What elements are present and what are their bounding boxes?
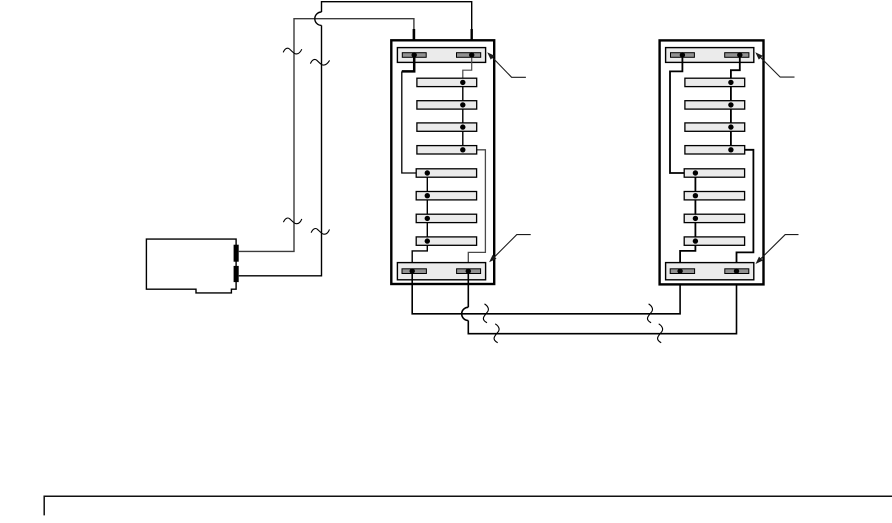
rack A node: slot 2 [460, 102, 465, 107]
wire B drop into rack A (thick) [471, 29, 473, 55]
rack A top-left port connector [402, 53, 426, 58]
cable C break squiggle (right) [647, 304, 652, 323]
rack B top patch bar [666, 48, 754, 63]
rack A slot 7 [416, 214, 476, 222]
rack A bottom-right port connector [457, 269, 481, 274]
wire B: device J2 to rack A right top connector [239, 2, 472, 276]
rack A internal wire: slots 5-8 chain [426, 173, 428, 241]
rack B slot 4 [685, 146, 745, 154]
rack B slot 8 [684, 237, 744, 245]
cable D: rack A bottom-right to rack B bottom-right [468, 271, 736, 334]
rack B internal wire: slots 1-4 chain [730, 82, 732, 149]
rack B slot 3 [685, 123, 745, 131]
rack A top-right port connector [457, 53, 481, 58]
rack A internal wire: slots 1-4 chain [462, 82, 464, 149]
rack A slot 1 [417, 78, 477, 86]
rack A slot 3 [417, 123, 477, 131]
rack B bottom-left port connector [670, 269, 694, 274]
rack B top-right port connector [725, 53, 749, 58]
rack B internal wire: slot 4 to bottom-right port [731, 150, 754, 271]
rack A bottom patch bar [397, 263, 485, 280]
leader line: rack B bottom bar callout [759, 235, 799, 261]
rack B bottom-right port connector [725, 269, 749, 274]
rack A node: slot 4 [460, 147, 465, 152]
leader arrowhead: rack A bottom bar [489, 255, 496, 262]
wire B break squiggle (lower) [311, 229, 329, 235]
rack B node: slot 7 [693, 216, 698, 221]
leader line: rack B top bar callout [759, 56, 795, 78]
wire A: device J1 to rack A left top connector [239, 19, 414, 252]
rack B internal wire: slot 8 to bottom-left port [680, 241, 695, 271]
wire A drop into rack A (thick) [413, 29, 416, 55]
leader arrowhead: rack A top bar [487, 52, 494, 59]
rack A slot 5 [416, 169, 476, 177]
rack A node: bottom-right port [466, 268, 471, 273]
rack B node: slot 8 [693, 238, 698, 243]
cable D break squiggle (right) [658, 324, 663, 343]
rack B slot 6 [684, 192, 744, 200]
rack B node: bottom-left port [677, 268, 682, 273]
rack A internal wire: top-right port jog (gray) [463, 55, 472, 82]
rack B node: slot 4 [728, 147, 733, 152]
rack B node: slot 6 [693, 193, 698, 198]
rack A slot 4 [417, 146, 477, 154]
cable C break squiggle (left) [483, 304, 488, 323]
wire B hop over wire A [315, 12, 322, 25]
rack A node: slot 7 [425, 216, 430, 221]
leader line: rack A top bar callout [491, 56, 526, 78]
rack B node: slot 5 [693, 170, 698, 175]
rack A node: slot 6 [425, 193, 430, 198]
cable D hop over cable C [462, 307, 469, 320]
rack A slot 2 [417, 101, 477, 109]
rack A outer frame [391, 40, 494, 284]
caption box top-left corner [44, 496, 892, 515]
device connector J2 (lower) [234, 266, 239, 282]
rack A internal wire: slot 4 to bottom-right port (gray) [463, 150, 486, 271]
rack B node: slot 3 [728, 124, 733, 129]
rack A internal wire: slot 8 to bottom-left port [412, 241, 427, 271]
rack A node: slot 8 [425, 238, 430, 243]
rack A slot 8 [416, 237, 476, 245]
rack A node: slot 5 [425, 170, 430, 175]
rack B node: slot 2 [728, 102, 733, 107]
rack A internal wire: top-left port down-left (thick) [402, 55, 414, 71]
rack B top-left port connector [671, 53, 695, 58]
rack A internal wire: left riser to slot 5 [402, 71, 428, 173]
cable D break squiggle (left) [494, 324, 499, 343]
cable C: rack A bottom-left to rack B bottom-left [412, 271, 680, 314]
rack A node: slot 3 [460, 124, 465, 129]
rack B slot 2 [685, 101, 745, 109]
leader arrowhead: rack B top bar [755, 52, 762, 59]
rack A top patch bar [397, 48, 485, 63]
rack A node: slot 1 [460, 80, 465, 85]
rack B node: bottom-right port [734, 268, 739, 273]
leader arrowhead: rack B bottom bar [756, 257, 763, 264]
leader line: rack A bottom bar callout [492, 235, 530, 260]
rack B internal wire: top-left port down-left [670, 55, 695, 173]
rack B slot 1 [685, 78, 745, 86]
rack A node: top-right port [469, 52, 474, 57]
rack B bottom patch bar [666, 263, 754, 280]
rack B internal wire: slots 5-8 chain [694, 173, 696, 241]
rack A bottom-left port connector [402, 269, 426, 274]
rack A node: bottom-left port [410, 268, 415, 273]
rack B internal wire: top-right port jog [731, 55, 740, 82]
rack B slot 5 [684, 169, 744, 177]
rack B node: top-right port [737, 52, 742, 57]
device connector J1 (upper) [234, 245, 239, 262]
rack B outer frame [660, 40, 764, 284]
rack B node: slot 1 [728, 80, 733, 85]
rack B slot 7 [684, 214, 744, 222]
wire A break squiggle (upper) [283, 48, 302, 54]
rack A node: top-left port [412, 52, 417, 57]
wire B break squiggle (upper) [310, 59, 329, 65]
rack B node: top-left port [680, 52, 685, 57]
wire A break squiggle (lower) [283, 218, 301, 224]
rack A slot 6 [416, 192, 476, 200]
device PC box outline [146, 239, 236, 293]
